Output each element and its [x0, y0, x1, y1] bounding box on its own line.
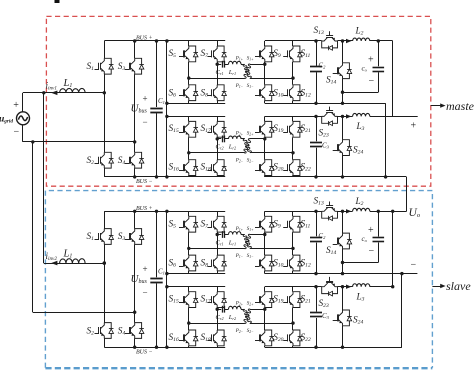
transistor S15' [185, 292, 189, 298]
svg-text:−: − [14, 127, 20, 138]
transistor S18 [213, 160, 217, 166]
wire V1 down slave [392, 211, 394, 286]
node Co top slave [377, 210, 380, 213]
transistor S20' [261, 330, 265, 336]
current arrow i_inv2 [51, 261, 57, 266]
transformer T1 master primary winding [243, 64, 251, 78]
transistor S3' [131, 229, 135, 235]
wire Co to S14 leg [343, 92, 379, 94]
wire BUS- rail slave [104, 347, 225, 349]
node C2 bottom [314, 102, 317, 105]
svg-text:Cr2: Cr2 [216, 314, 224, 321]
wire L3 to plus terminal [370, 116, 418, 118]
node leg1 mid row1 master [187, 76, 190, 79]
transistor S11 [289, 46, 293, 52]
wire row1 top rail to S13 slave [265, 211, 322, 213]
wire bus right rail master [166, 41, 168, 177]
transistor S9' [261, 216, 265, 222]
svg-text:master: master [446, 99, 474, 113]
node S24 top slave [341, 285, 344, 288]
wire row1 top rail to S13 [265, 40, 322, 42]
wire row2 bottom rail right slave [265, 347, 402, 349]
transistor S9 [261, 46, 265, 52]
current arrow row1 out slave [346, 209, 351, 213]
transistor S5 [185, 46, 189, 52]
svg-text:P2−: P2− [235, 159, 244, 164]
node C3 top [314, 115, 317, 118]
arrow to master label [440, 103, 445, 107]
capacitor C3 [310, 142, 322, 144]
wire slave link up [401, 274, 403, 348]
capacitor Cr1 master [222, 61, 224, 68]
wire leg1 midpoint to transformer row2 master [189, 152, 245, 154]
node sec bottom row1 slave [291, 247, 294, 250]
svg-text:P2−: P2− [235, 329, 244, 334]
transistor S16' [185, 330, 189, 336]
capacitor C2 slave [310, 237, 322, 239]
node C2 bottom slave [314, 272, 317, 275]
capacitor Cr2 master [222, 136, 224, 143]
current arrow i_inv1 [51, 91, 57, 96]
wire ac minus lead [22, 125, 24, 142]
current arrow row2 out [346, 114, 351, 118]
wire secondary bottom row2 master [250, 152, 293, 154]
node sec top row1 slave [263, 233, 266, 236]
svg-text:BUS −: BUS − [136, 179, 153, 185]
transistor S2 [101, 152, 105, 158]
wire leg S15-S16 row2 master [188, 116, 190, 121]
transistor S1' [101, 229, 105, 235]
svg-text:BUS +: BUS + [136, 206, 153, 212]
wire leg S3-S4 slave [134, 211, 136, 228]
transistor S6 [185, 85, 189, 91]
node input tap leg2 master [133, 140, 136, 143]
wire Co to S14 leg slave [343, 262, 379, 264]
wire secondary top row1 slave [250, 234, 265, 236]
svg-text:S2+: S2+ [247, 302, 254, 307]
wire leg S11-S12 row1 slave [292, 211, 294, 216]
arrow to slave label [440, 284, 445, 288]
node bus rail bottom slave [165, 346, 168, 349]
wire Cr to Lr row2 slave [225, 309, 229, 311]
wire L2 to corner [370, 40, 393, 42]
node C2 top [314, 39, 317, 42]
transistor S23 [322, 113, 328, 117]
wire L3 to V1 slave [370, 286, 393, 288]
inductor L1 [60, 88, 86, 92]
wire leg2 midpoint to Cr row2 master [217, 138, 221, 140]
transistor S4' [131, 323, 135, 329]
wire V2 down [385, 103, 387, 177]
wire master minus link down [406, 177, 408, 212]
wire leg1 midpoint to transformer row2 slave [189, 323, 245, 325]
capacitor C1 slave [150, 278, 162, 280]
transistor S14 [339, 63, 343, 69]
node stub top row2 slave [165, 285, 168, 288]
inductor L3 slave [353, 284, 370, 287]
wire left bridge top rail row2 slave [167, 286, 225, 288]
wire leg S5-S6 row1 master [188, 41, 190, 46]
svg-text:+: + [411, 121, 417, 132]
wire C1 branch slave [156, 211, 158, 277]
transistor S17' [213, 292, 217, 298]
svg-text:P1−: P1− [235, 84, 244, 89]
transformer T2 master secondary winding [244, 139, 251, 153]
wire BUS+ rail slave [104, 211, 225, 213]
node bus rail bottom master [165, 175, 168, 178]
capacitor C3 branch slave [316, 287, 318, 312]
inductor Lr1 slave [229, 232, 242, 235]
transistor S24' [339, 310, 343, 316]
transistor S1 [101, 58, 105, 64]
svg-text:P1+: P1+ [235, 227, 244, 232]
transistor S18' [213, 330, 217, 336]
wire S13 to L2 slave [338, 211, 353, 213]
wire V1 down [392, 41, 394, 116]
wire leg2 midpoint to Cr row1 slave [217, 234, 221, 236]
node sec bottom row2 slave [291, 321, 294, 324]
wire input top [23, 92, 104, 94]
transformer T1 slave primary winding [243, 235, 251, 249]
node slave minus junction [400, 272, 403, 275]
wire input bottom slave [33, 312, 135, 314]
wire S24 leg [342, 116, 344, 139]
transistor S17 [213, 121, 217, 127]
transistor S23' [322, 283, 328, 287]
node Co top [377, 39, 380, 42]
wire leg S3-S4 master [134, 41, 136, 58]
transistor S16 [185, 160, 189, 166]
wire Cr to Lr row1 slave [225, 234, 229, 236]
cropped caption mark [55, 0, 60, 3]
wire input bottom [23, 141, 135, 143]
transformer T1 slave secondary winding [244, 234, 251, 248]
svg-text:P1−: P1− [235, 254, 244, 259]
node S24 top [341, 115, 344, 118]
transformer T2 slave secondary winding [244, 309, 251, 323]
current arrow row1 out [346, 39, 351, 43]
wire secondary top row2 master [250, 138, 265, 140]
wire input top slave [44, 263, 105, 265]
svg-text:−: − [143, 287, 148, 297]
capacitor Co [373, 67, 385, 69]
wire Lr to transformer row2 master [241, 138, 245, 140]
svg-text:BUS +: BUS + [136, 36, 153, 42]
svg-text:−: − [143, 117, 148, 127]
capacitor Co branch [378, 41, 380, 66]
ac source u_grid [17, 112, 30, 125]
wire secondary bottom row1 master [250, 78, 293, 80]
transistor S22' [289, 330, 293, 336]
node leg2 mid row1 slave [216, 233, 219, 236]
node S14 top [341, 39, 344, 42]
transistor S21' [289, 292, 293, 298]
wire leg S9-S10 row1 slave [264, 211, 266, 216]
wire S14 leg [342, 41, 344, 63]
wire leg S1-S2 master [104, 41, 106, 58]
node sec bottom row2 master [291, 151, 294, 154]
svg-text:Cr1: Cr1 [216, 239, 224, 246]
wire L2 to link node slave [370, 211, 407, 213]
transistor S8 [213, 85, 217, 91]
wire secondary bottom row2 slave [250, 323, 293, 325]
wire Cr to Lr row2 master [225, 138, 229, 140]
node bus rail top slave [165, 210, 168, 213]
svg-text:S2+: S2+ [247, 131, 254, 136]
transistor S13' [322, 208, 328, 212]
wire leg S19-S20 row2 master [264, 116, 266, 121]
wire leg S1-S2 slave [104, 211, 106, 228]
wire left bridge top rail row2 master [167, 116, 225, 118]
wire leg S17-S18 row2 slave [217, 287, 219, 292]
wire leg S21-S22 row2 master [292, 116, 294, 121]
node input tap leg1 master [103, 91, 106, 94]
svg-text:S1+: S1+ [247, 57, 254, 62]
transistor S19' [261, 292, 265, 298]
svg-text:P2+: P2+ [235, 302, 244, 307]
wire S14 leg slave [342, 211, 344, 233]
transistor S10' [261, 255, 265, 261]
transistor S11' [289, 216, 293, 222]
node sec top row2 master [263, 137, 266, 140]
node sec top row2 slave [263, 308, 266, 311]
wire leg S9-S10 row1 master [264, 41, 266, 46]
capacitor C3 branch [316, 116, 318, 141]
master dashed boundary box [46, 16, 430, 186]
transistor S7 [213, 46, 217, 52]
wire row2 top rail to S23 slave [265, 286, 322, 288]
wire leg2 midpoint to Cr row1 master [217, 64, 221, 66]
svg-text:Lr2: Lr2 [228, 144, 236, 151]
capacitor C1 master [150, 108, 162, 110]
transformer T2 master primary winding [243, 139, 251, 153]
node sec bottom row1 master [291, 76, 294, 79]
node Co bottom link slave [341, 261, 344, 264]
transistor S19 [261, 121, 265, 127]
svg-text:+: + [368, 225, 374, 236]
svg-text:P1+: P1+ [235, 57, 244, 62]
node leg1 mid row2 master [187, 151, 190, 154]
svg-text:S2−: S2− [247, 329, 254, 334]
node V1 top slave [391, 210, 394, 213]
svg-text:−: − [411, 260, 417, 271]
svg-text:+: + [368, 55, 374, 66]
wire row2 bottom rail right [265, 176, 407, 178]
svg-text:S1−: S1− [247, 84, 254, 89]
node C3 bottom [314, 175, 317, 178]
transistor S12' [289, 255, 293, 261]
wire leg2 midpoint to Cr row2 slave [217, 309, 221, 311]
wire S24 leg slave [342, 287, 344, 310]
node leg1 mid row1 slave [187, 247, 190, 250]
transistor S5' [185, 216, 189, 222]
wire left bridge bottom rail row1 slave [167, 273, 225, 275]
transformer T1 master secondary winding [244, 64, 251, 78]
transistor S10 [261, 85, 265, 91]
wire leg S19-S20 row2 slave [264, 287, 266, 292]
transistor S14' [339, 233, 343, 239]
transistor S2' [101, 323, 105, 329]
node V1 bottom slave [391, 285, 394, 288]
wire left bridge bottom rail row1 master [167, 103, 225, 105]
wire Lr to transformer row1 slave [241, 234, 245, 236]
transformer T2 slave primary winding [243, 309, 251, 323]
transistor S7' [213, 216, 217, 222]
capacitor C3 slave [310, 312, 322, 314]
wire Lr to transformer row1 master [241, 64, 245, 66]
wire S13 to L2 [338, 40, 353, 42]
node input tap leg1 slave [103, 261, 106, 264]
wire S23 to L3 slave [338, 286, 353, 288]
svg-text:S1+: S1+ [247, 227, 254, 232]
node leg1 mid row2 slave [187, 321, 190, 324]
node grid plus [42, 91, 45, 94]
wire S23 to L3 [338, 116, 353, 118]
capacitor C2 branch slave [316, 211, 318, 236]
wire leg1 midpoint to transformer row1 slave [189, 248, 245, 250]
transistor S6' [185, 255, 189, 261]
wire Cr to Lr row1 master [225, 64, 229, 66]
wire ac plus lead [22, 93, 24, 112]
node input tap leg2 slave [133, 311, 136, 314]
transistor S15 [185, 121, 189, 127]
wire leg1 midpoint to transformer row1 master [189, 78, 245, 80]
inductor L3 [353, 113, 370, 116]
capacitor C2 [310, 66, 322, 68]
transistor S21 [289, 121, 293, 127]
node stub top row2 master [165, 115, 168, 118]
wire secondary bottom row1 slave [250, 248, 293, 250]
svg-text:BUS −: BUS − [136, 349, 153, 355]
wire Lr to transformer row2 slave [241, 309, 245, 311]
wire C1 branch master [156, 41, 158, 107]
transistor S20 [261, 160, 265, 166]
inductor Lr2 master [229, 136, 242, 139]
wire secondary top row1 master [250, 64, 265, 66]
transistor S12 [289, 85, 293, 91]
wire BUS+ rail master [104, 40, 225, 42]
node leg2 mid row2 master [216, 137, 219, 140]
inductor L1 slave [60, 259, 86, 263]
node stub bottom row1 slave [165, 272, 168, 275]
transistor S8' [213, 255, 217, 261]
node slave input [103, 261, 106, 264]
transistor S24 [339, 140, 343, 146]
svg-text:Cr2: Cr2 [216, 144, 224, 151]
node C3 bottom slave [314, 346, 317, 349]
transistor S22 [289, 160, 293, 166]
node S14 top slave [341, 210, 344, 213]
node sec top row1 master [263, 62, 266, 65]
inductor Lr2 slave [229, 306, 242, 309]
wire slave minus line [265, 273, 418, 275]
svg-text:−: − [369, 76, 375, 87]
node C2 top slave [314, 210, 317, 213]
transistor S13 [322, 37, 328, 41]
inductor L2 slave [353, 208, 370, 211]
svg-text:+: + [13, 100, 19, 111]
wire BUS- rail master [104, 176, 225, 178]
svg-text:Lr1: Lr1 [228, 69, 236, 76]
current arrow row2 out slave [346, 285, 351, 289]
node grid minus [31, 140, 34, 143]
wire row2 top rail to S23 [265, 116, 322, 118]
svg-text:+: + [143, 94, 148, 104]
node Co bottom link [341, 91, 344, 94]
svg-text:slave: slave [446, 279, 471, 293]
capacitor Cr2 slave [222, 306, 224, 313]
svg-text:Lr1: Lr1 [228, 239, 236, 246]
svg-text:Lr2: Lr2 [228, 314, 236, 321]
wire row1 bottom rail right [265, 103, 386, 105]
capacitor Co branch slave [378, 211, 380, 236]
wire to slave input plus [43, 93, 45, 263]
transistor S3 [131, 58, 135, 64]
wire leg S17-S18 row2 master [217, 116, 219, 121]
wire leg S7-S8 row1 slave [217, 211, 219, 216]
capacitor Co slave [373, 237, 385, 239]
inductor L2 [353, 38, 370, 41]
wire leg S11-S12 row1 master [292, 41, 294, 46]
wire leg S21-S22 row2 slave [292, 287, 294, 292]
node bus rail top master [165, 39, 168, 42]
wire secondary top row2 slave [250, 309, 265, 311]
svg-text:P2+: P2+ [235, 131, 244, 136]
svg-text:+: + [143, 264, 148, 274]
node leg2 mid row1 master [216, 62, 219, 65]
wire bus right rail slave [166, 211, 168, 347]
node leg2 mid row2 slave [216, 308, 219, 311]
slave dashed boundary box [45, 191, 432, 368]
wire leg S5-S6 row1 slave [188, 211, 190, 216]
capacitor Cr1 slave [222, 231, 224, 238]
wire to slave input minus [32, 142, 34, 312]
svg-text:S1−: S1− [247, 254, 254, 259]
transistor S4 [131, 152, 135, 158]
node C3 top slave [314, 285, 317, 288]
svg-text:Cr1: Cr1 [216, 69, 224, 76]
svg-text:−: − [369, 246, 375, 257]
wire leg S15-S16 row2 slave [188, 287, 190, 292]
inductor Lr1 master [229, 61, 242, 64]
svg-text:S2−: S2− [247, 159, 254, 164]
wire leg S7-S8 row1 master [217, 41, 219, 46]
node stub bottom row1 master [165, 102, 168, 105]
capacitor C2 branch [316, 41, 318, 66]
